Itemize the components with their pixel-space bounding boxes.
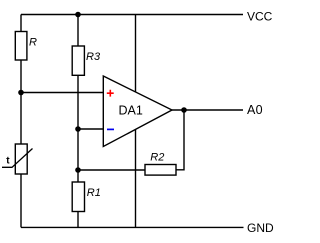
wire inverting input — [78, 128, 103, 130]
svg-text:GND: GND — [247, 221, 274, 235]
junction dot R / thermistor node — [18, 90, 24, 96]
wire node to R2 left — [78, 169, 145, 171]
svg-text:R1: R1 — [87, 187, 101, 199]
wire GND bottom rail — [21, 226, 244, 228]
junction dot inverting node — [75, 126, 81, 132]
thermistor body — [15, 144, 27, 174]
thermistor diagonal stroke — [2, 149, 33, 168]
svg-text:R: R — [29, 37, 37, 49]
svg-text:R2: R2 — [150, 152, 164, 164]
wire middle branch vertical — [77, 15, 79, 228]
resistor R1 body — [72, 182, 84, 212]
resistor R2 body — [145, 165, 176, 176]
wire output to AO — [172, 109, 243, 111]
wire feedback from output to R2 right — [176, 110, 184, 170]
svg-text:A0: A0 — [247, 103, 263, 117]
op-amp minus input marker — [107, 128, 114, 130]
wire op-amp V- pin — [135, 129, 137, 228]
wire non-inverting input — [21, 92, 103, 94]
junction dot top rail / R3 — [75, 12, 81, 18]
junction dot output node — [181, 107, 187, 113]
wire op-amp V+ pin — [135, 15, 137, 94]
svg-text:R3: R3 — [86, 51, 101, 63]
svg-text:DA1: DA1 — [119, 103, 143, 117]
wire VCC top rail — [21, 14, 243, 16]
resistor R body — [15, 32, 27, 61]
op-amp DA1 triangle — [103, 76, 172, 147]
op-amp plus input marker — [107, 90, 114, 97]
svg-text:VCC: VCC — [247, 9, 273, 23]
junction dot R3 / R1 / R2 node — [75, 167, 81, 173]
wire left branch vertical — [20, 15, 22, 228]
resistor R3 body — [72, 46, 84, 75]
